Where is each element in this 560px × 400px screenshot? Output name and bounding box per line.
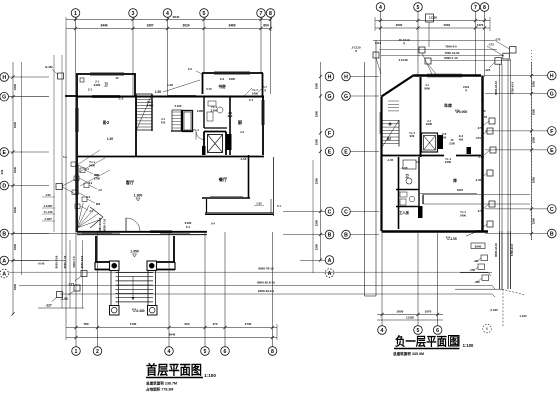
- svg-text:2400: 2400: [147, 104, 154, 108]
- svg-text:8000-7-10: 8000-7-10: [63, 255, 67, 268]
- svg-text:E-2: E-2: [459, 134, 464, 138]
- svg-text:7: 7: [260, 11, 263, 17]
- svg-text:3440: 3440: [13, 206, 17, 213]
- svg-text:E: E: [328, 149, 332, 155]
- svg-text:8000-7-10: 8000-7-10: [103, 218, 107, 231]
- svg-text:3440: 3440: [13, 243, 17, 250]
- svg-text:8000-23-6: 8000-23-6: [80, 255, 84, 268]
- svg-text:梯: 梯: [388, 121, 391, 126]
- svg-text:C-2: C-2: [220, 77, 225, 81]
- svg-text:-0.450: -0.450: [135, 309, 144, 313]
- svg-text:2380: 2380: [532, 176, 536, 183]
- svg-text:G: G: [550, 91, 554, 97]
- svg-text:H: H: [2, 75, 6, 81]
- svg-text:5-1: 5-1: [63, 155, 67, 159]
- svg-text:2100: 2100: [185, 221, 192, 225]
- svg-text:J-1: J-1: [416, 160, 420, 164]
- svg-text:卫: 卫: [104, 82, 108, 87]
- svg-text:2380: 2380: [315, 110, 319, 117]
- svg-text:1.50: 1.50: [155, 90, 161, 94]
- svg-text:Yc-1: Yc-1: [460, 210, 466, 214]
- svg-text:A: A: [2, 271, 6, 277]
- svg-text:7130: 7130: [130, 322, 137, 326]
- svg-text:2400: 2400: [252, 92, 258, 96]
- svg-text:8000-43-10: 8000-43-10: [494, 81, 498, 95]
- svg-text:6: 6: [224, 349, 227, 355]
- svg-text:900: 900: [228, 114, 233, 118]
- svg-text:1997: 1997: [146, 24, 153, 28]
- svg-text:1.05: 1.05: [256, 202, 262, 206]
- svg-text:2380: 2380: [315, 177, 319, 184]
- svg-text:D: D: [2, 183, 6, 189]
- svg-text:+0.45: +0.45: [38, 262, 45, 266]
- svg-text:总建筑面积 238.7M: 总建筑面积 238.7M: [146, 381, 177, 386]
- svg-text:8000-43-10: 8000-43-10: [494, 243, 498, 257]
- svg-text:餐厅: 餐厅: [218, 176, 228, 183]
- svg-text:5.100: 5.100: [175, 104, 182, 108]
- svg-text:2380: 2380: [315, 138, 319, 145]
- svg-text:J2: J2: [116, 76, 119, 80]
- svg-text:B-43k: B-43k: [45, 65, 53, 69]
- svg-text:J-3: J-3: [240, 130, 244, 134]
- svg-text:5: 5: [204, 349, 207, 355]
- svg-text:Yc-7: Yc-7: [252, 88, 258, 92]
- svg-text:2380: 2380: [532, 80, 536, 87]
- svg-text:B2: B2: [387, 137, 391, 141]
- svg-text:1: 1: [74, 11, 77, 17]
- svg-text:2: 2: [96, 349, 99, 355]
- svg-text:J-C118: J-C118: [398, 58, 407, 62]
- svg-text:客厅: 客厅: [125, 179, 135, 186]
- svg-text:Yc-1: Yc-1: [193, 128, 199, 132]
- svg-text:C-7: C-7: [249, 98, 254, 102]
- svg-text:900: 900: [184, 322, 189, 326]
- svg-text:1465: 1465: [197, 109, 204, 113]
- svg-text:M-2: M-2: [95, 173, 100, 177]
- svg-text:1.300: 1.300: [134, 194, 143, 198]
- svg-text:2-430: 2-430: [490, 308, 498, 312]
- svg-text:8000-78-10: 8000-78-10: [258, 267, 274, 271]
- svg-text:2024: 2024: [182, 24, 189, 28]
- svg-text:7000-12-50: 7000-12-50: [445, 51, 460, 55]
- svg-text:5-1: 5-1: [186, 225, 191, 229]
- svg-text:750: 750: [161, 121, 166, 125]
- svg-text:-173: -173: [488, 43, 494, 47]
- svg-text:5: 5: [417, 328, 420, 334]
- svg-text:B: B: [344, 232, 348, 238]
- svg-text:J73: J73: [478, 126, 483, 130]
- svg-text:H: H: [328, 74, 332, 80]
- svg-text:3600: 3600: [397, 310, 404, 314]
- svg-text:3440: 3440: [13, 283, 17, 290]
- svg-text:3700-43-5: 3700-43-5: [511, 81, 515, 94]
- svg-text:负一层平面: 负一层平面: [395, 334, 447, 349]
- svg-text:总建筑面积 335.3M: 总建筑面积 335.3M: [393, 351, 424, 356]
- svg-text:3: 3: [132, 11, 135, 17]
- svg-text:A: A: [328, 271, 332, 277]
- svg-text:1-100: 1-100: [519, 314, 527, 318]
- svg-text:604: 604: [263, 24, 269, 28]
- svg-text:6: 6: [486, 327, 488, 331]
- svg-text:1: 1: [75, 349, 78, 355]
- svg-text:3440: 3440: [100, 24, 107, 28]
- svg-text:8: 8: [269, 11, 272, 17]
- svg-text:E: E: [2, 150, 6, 156]
- svg-text:3470: 3470: [457, 188, 464, 192]
- svg-text:5: 5: [417, 5, 420, 11]
- svg-text:2400: 2400: [229, 77, 235, 81]
- svg-text:2881-23.8-5: 2881-23.8-5: [98, 217, 102, 232]
- svg-text:2100: 2100: [449, 142, 455, 146]
- svg-text:-127: -127: [473, 259, 479, 263]
- svg-text:11330: 11330: [406, 316, 414, 320]
- svg-text:1.950: 1.950: [130, 250, 139, 254]
- svg-text:7000-6-5: 7000-6-5: [445, 45, 457, 49]
- svg-text:Yc-130: Yc-130: [44, 210, 53, 214]
- svg-text:780: 780: [83, 322, 88, 326]
- svg-text:-1.05: -1.05: [387, 158, 394, 162]
- svg-text:C-2: C-2: [119, 97, 124, 101]
- svg-text:A: A: [328, 258, 332, 264]
- svg-text:-303: -303: [474, 280, 480, 284]
- svg-text:A: A: [2, 258, 6, 264]
- svg-text:工人房: 工人房: [399, 210, 410, 215]
- svg-text:900: 900: [410, 134, 415, 138]
- svg-text:3440: 3440: [13, 166, 17, 173]
- svg-text:4: 4: [379, 5, 382, 11]
- svg-text:9640: 9640: [169, 333, 176, 337]
- svg-text:-1.05: -1.05: [240, 157, 247, 161]
- svg-text:C: C: [328, 209, 332, 215]
- svg-text:-127: -127: [45, 304, 52, 308]
- svg-text:-1.05: -1.05: [475, 178, 482, 182]
- svg-text:1:100: 1:100: [463, 343, 474, 348]
- svg-text:1970: 1970: [425, 310, 432, 314]
- svg-text:8000-23-6: 8000-23-6: [55, 255, 59, 268]
- svg-text:2380: 2380: [315, 219, 319, 226]
- svg-text:E: E: [550, 148, 554, 154]
- svg-text:车库: 车库: [444, 102, 452, 108]
- svg-text:5981: 5981: [444, 23, 451, 27]
- svg-text:C-1: C-1: [88, 88, 93, 92]
- svg-text:4: 4: [166, 11, 169, 17]
- svg-text:2400: 2400: [426, 122, 433, 126]
- svg-text:4: 4: [168, 349, 171, 355]
- svg-text:5-7: 5-7: [263, 85, 267, 89]
- svg-text:E: E: [344, 149, 348, 155]
- svg-text:-1.05: -1.05: [449, 237, 456, 241]
- svg-text:8: 8: [271, 349, 274, 355]
- svg-text:2000-23.2-2: 2000-23.2-2: [258, 289, 275, 293]
- svg-text:1379: 1379: [477, 23, 484, 27]
- svg-text:J-130/7: J-130/7: [43, 204, 53, 208]
- svg-text:C: C: [550, 207, 554, 213]
- svg-text:5-4: 5-4: [211, 222, 215, 226]
- svg-text:5-1: 5-1: [277, 204, 281, 208]
- svg-text:-170: -170: [475, 229, 481, 233]
- svg-text:5: 5: [203, 11, 206, 17]
- svg-text:C119: C119: [463, 85, 470, 89]
- svg-text:2380: 2380: [532, 108, 536, 115]
- svg-text:900: 900: [96, 202, 101, 206]
- svg-text:2000-7-5: 2000-7-5: [72, 256, 76, 268]
- svg-text:3600: 3600: [396, 23, 403, 27]
- svg-text:2400: 2400: [94, 83, 101, 87]
- svg-text:H: H: [344, 74, 348, 80]
- svg-text:2400: 2400: [445, 160, 452, 164]
- svg-text:2400: 2400: [89, 164, 95, 168]
- svg-text:J-18/7: J-18/7: [44, 217, 52, 221]
- svg-text:2380: 2380: [532, 217, 536, 224]
- svg-text:G: G: [327, 94, 331, 100]
- svg-text:J-1: J-1: [425, 83, 429, 87]
- svg-text:J-3: J-3: [98, 188, 102, 192]
- svg-text:J-18: J-18: [478, 155, 484, 159]
- svg-text:H: H: [550, 73, 554, 79]
- svg-text:4: 4: [381, 328, 384, 334]
- svg-text:F: F: [550, 129, 553, 135]
- svg-text:1.30: 1.30: [107, 137, 113, 141]
- svg-text:3700-43-5: 3700-43-5: [510, 243, 514, 256]
- svg-text:5.70: 5.70: [206, 87, 212, 91]
- svg-text:J.06: J.06: [45, 193, 51, 197]
- svg-text:495: 495: [459, 138, 464, 142]
- svg-text:-125: -125: [485, 68, 491, 72]
- svg-text:930: 930: [0, 169, 4, 174]
- svg-text:F: F: [328, 131, 331, 137]
- svg-text:2380: 2380: [315, 82, 319, 89]
- svg-text:G: G: [2, 95, 6, 101]
- svg-text:3000: 3000: [475, 245, 482, 249]
- svg-text:3440: 3440: [13, 121, 17, 128]
- svg-text:C119: C119: [375, 41, 382, 45]
- svg-text:占地面积 778.3M: 占地面积 778.3M: [146, 387, 173, 392]
- svg-text:-127: -127: [68, 283, 75, 287]
- svg-text:1.52: 1.52: [482, 115, 488, 119]
- svg-text:2400: 2400: [460, 214, 466, 218]
- svg-text:J73: J73: [478, 209, 483, 213]
- svg-text:C: C: [344, 209, 348, 215]
- svg-text:8000-7-10: 8000-7-10: [444, 56, 458, 60]
- svg-text:1.46: 1.46: [167, 83, 173, 87]
- svg-text:2400: 2400: [424, 87, 430, 91]
- svg-text:Yc-1: Yc-1: [89, 160, 95, 164]
- svg-text:2-2: 2-2: [188, 67, 192, 71]
- svg-text:2380: 2380: [532, 136, 536, 143]
- svg-text:卧2: 卧2: [103, 119, 110, 126]
- svg-text:-170: -170: [469, 268, 475, 272]
- svg-text:-173: -173: [475, 136, 481, 140]
- svg-text:G: G: [344, 94, 348, 100]
- svg-text:6: 6: [436, 328, 439, 334]
- svg-text:2100: 2100: [211, 109, 218, 113]
- svg-text:卫: 卫: [405, 173, 409, 178]
- svg-text:2700: 2700: [94, 177, 100, 181]
- svg-text:3440: 3440: [13, 83, 17, 90]
- svg-text:470: 470: [212, 322, 217, 326]
- svg-text:B: B: [328, 232, 332, 238]
- svg-text:书房: 书房: [218, 84, 226, 89]
- svg-text:4730: 4730: [245, 322, 252, 326]
- svg-text:B: B: [550, 231, 554, 237]
- svg-text:8: 8: [483, 5, 486, 11]
- svg-text:图: 图: [450, 337, 460, 348]
- svg-text:B: B: [2, 231, 6, 237]
- svg-text:9640: 9640: [173, 15, 180, 19]
- svg-text:J-1: J-1: [161, 117, 165, 121]
- svg-text:3460: 3460: [228, 24, 235, 28]
- svg-text:2380: 2380: [315, 243, 319, 250]
- svg-text:7: 7: [474, 5, 477, 11]
- svg-text:首层平面图: 首层平面图: [146, 363, 202, 378]
- svg-text:1:100: 1:100: [204, 373, 216, 378]
- svg-text:库: 库: [452, 178, 457, 183]
- svg-text:-1.05: -1.05: [401, 166, 408, 170]
